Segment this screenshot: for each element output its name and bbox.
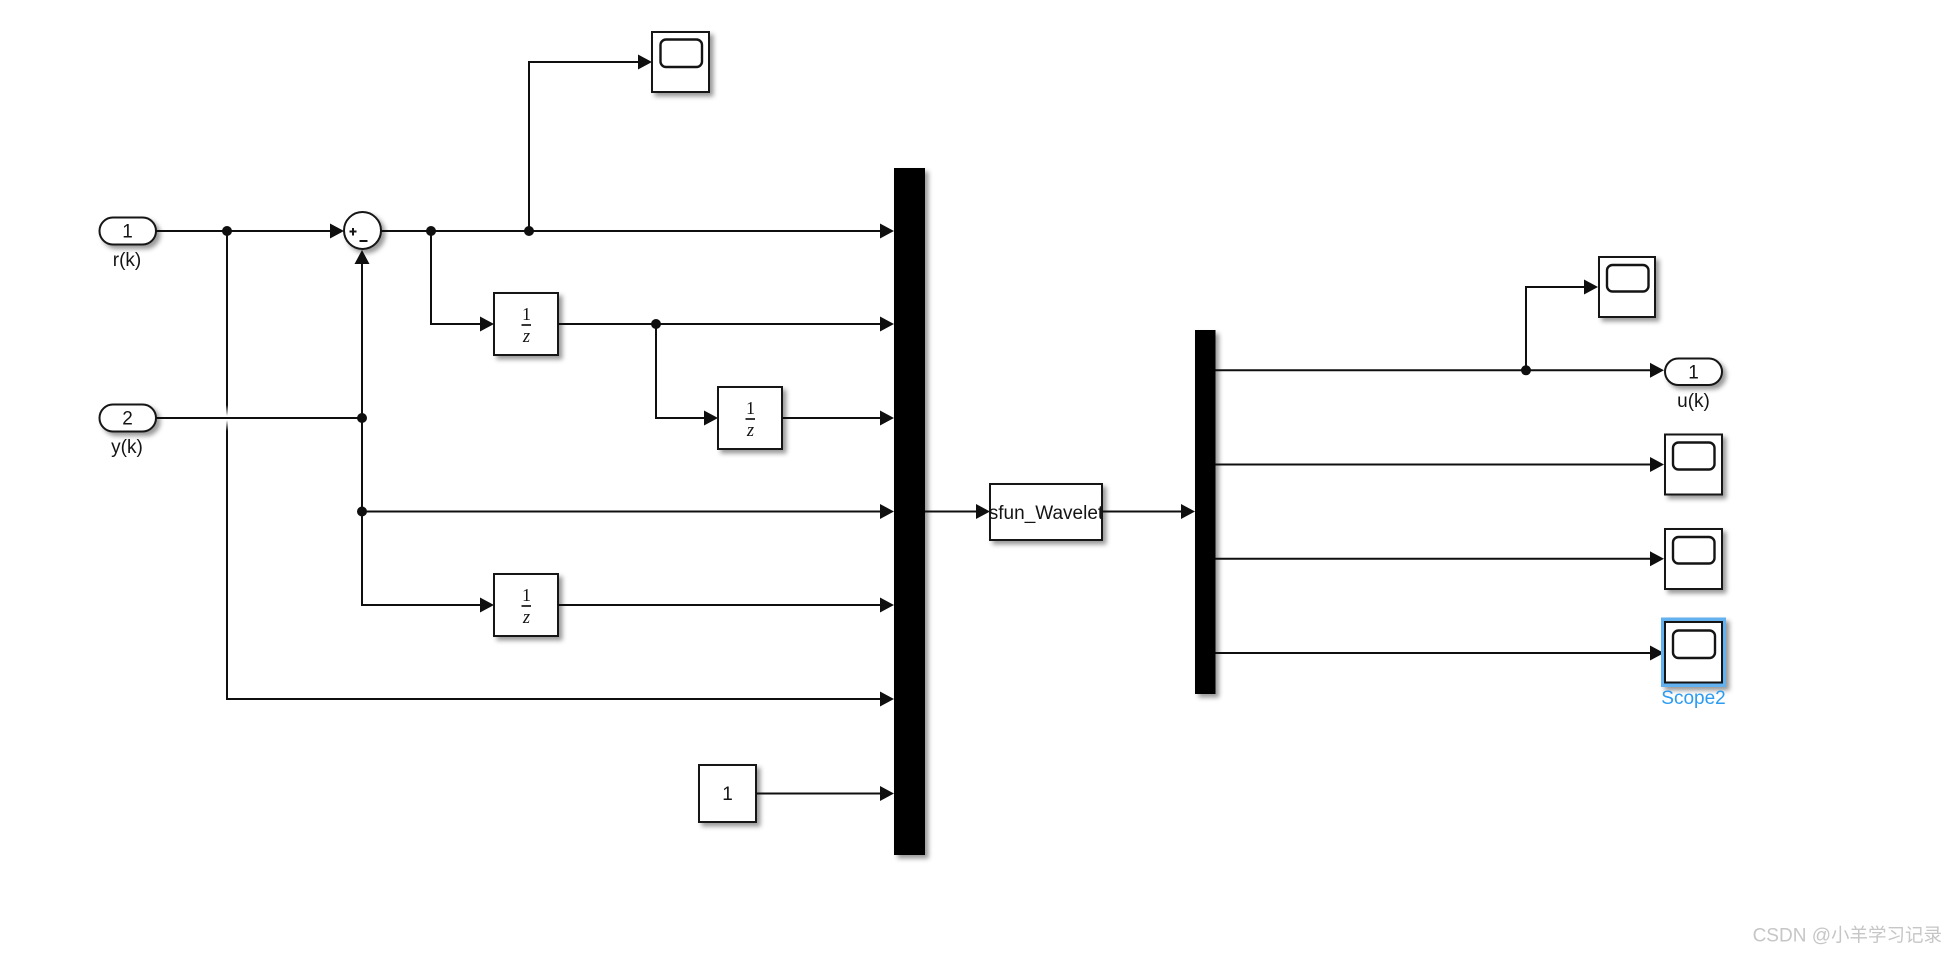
scope Scope2 (selected) [1661, 618, 1726, 688]
inport 2 y(k) [100, 405, 157, 432]
svg-text:Scope2: Scope2 [1661, 688, 1725, 709]
wire demux output 1 to outport u(k) [1216, 363, 1665, 378]
junction sum-out branch B [524, 226, 534, 236]
outport 1 u(k) [1665, 359, 1722, 386]
svg-text:u(k): u(k) [1677, 391, 1710, 412]
svg-text:z: z [746, 421, 754, 441]
wire branch to unit delay 2 [656, 324, 718, 426]
inport 1 r(k) [100, 218, 157, 245]
wire constant to mux input 7 [756, 786, 894, 801]
wire demux output 2 to scope [1216, 457, 1665, 472]
wire unit delay 2 to mux input 3 [782, 411, 894, 426]
junction sum-out branch A [426, 226, 436, 236]
svg-text:1: 1 [522, 585, 531, 605]
junction y(k) node [357, 413, 367, 423]
wire demux output 3 to scope [1216, 551, 1665, 566]
svg-text:1: 1 [1688, 363, 1699, 384]
wire mid junction down to unit delay 3 [362, 512, 494, 613]
svg-text:y(k): y(k) [111, 437, 143, 458]
svg-text:z: z [522, 327, 530, 347]
scope top-right [1599, 257, 1655, 317]
wire r(k) to sum [156, 224, 344, 239]
wire branch to scope top-right [1526, 280, 1598, 371]
wire sfun to demux [1102, 504, 1195, 519]
wire unit delay 1 to mux input 2 [558, 317, 894, 332]
junction mid [357, 507, 367, 517]
svg-text:z: z [522, 608, 530, 628]
demux [1195, 330, 1216, 694]
svg-text:1: 1 [122, 222, 133, 243]
unit delay 2 [718, 387, 782, 449]
svg-text:1: 1 [746, 398, 755, 418]
svg-text:2: 2 [122, 409, 133, 430]
wire branch to unit delay 1 [431, 231, 494, 332]
unit delay 3 [494, 574, 558, 636]
junction on r(k) wire [222, 226, 232, 236]
wire y(k) node down to mid junction [361, 418, 363, 512]
wire branch to scope Scope [529, 55, 652, 232]
svg-text:1: 1 [722, 784, 733, 805]
svg-text:sfun_Wavelet: sfun_Wavelet [989, 503, 1104, 524]
wire mid junction to mux input 4 [362, 504, 894, 519]
wire sum output to mux input 1 [381, 224, 894, 239]
junction on delay1 output [651, 319, 661, 329]
wire unit delay 3 to mux input 5 [558, 598, 894, 613]
junction on output 1 [1521, 365, 1531, 375]
wire y(k) up into sum minus input [355, 250, 370, 418]
wire y(k) to junction [156, 405, 362, 431]
svg-text:1: 1 [522, 304, 531, 324]
unit delay 1 [494, 293, 558, 355]
scope output 3 [1665, 529, 1722, 589]
sfun_Wavelet block [989, 484, 1104, 540]
scope output 2 [1665, 435, 1722, 495]
wire r(k) branch to mux input 6 [227, 231, 894, 707]
svg-text:CSDN @小羊学习记录: CSDN @小羊学习记录 [1753, 925, 1942, 947]
wire demux output 4 to Scope2 [1216, 646, 1665, 661]
mux [894, 168, 925, 855]
svg-text:r(k): r(k) [113, 250, 141, 271]
constant 1 block [699, 765, 756, 822]
sum block [344, 212, 381, 249]
scope Scope (top) [652, 32, 709, 92]
wire mux to sfun block [925, 504, 990, 519]
